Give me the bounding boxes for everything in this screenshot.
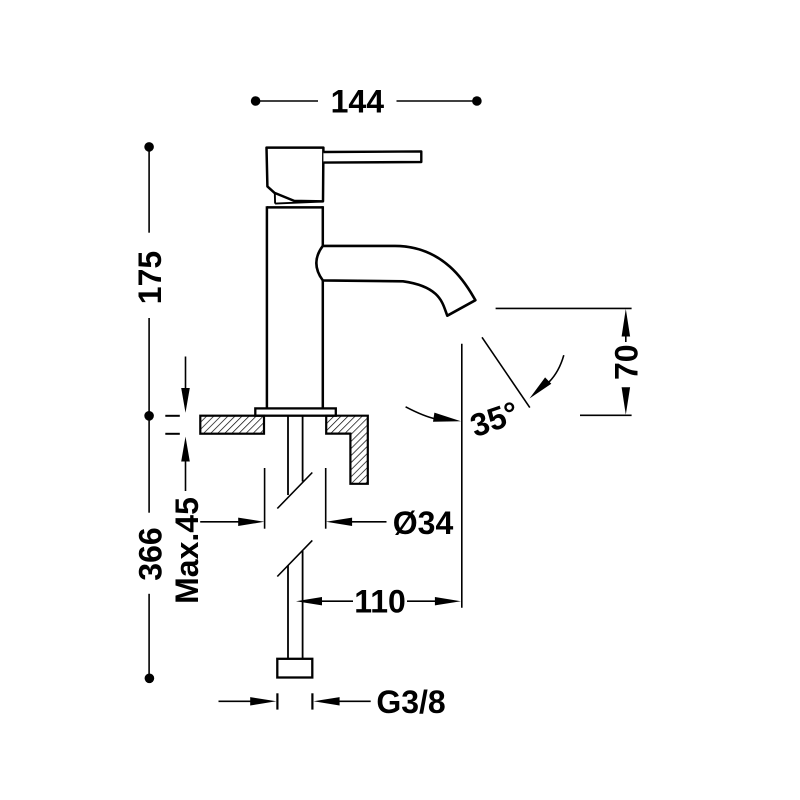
countertop left slab (hatched) (200, 416, 264, 434)
dia34 left extension line (264, 468, 266, 529)
35deg lower arrowhead (433, 413, 461, 422)
dimension 110 right arrowhead (435, 597, 461, 605)
dimension 144 right line (397, 100, 476, 102)
base plate (255, 408, 335, 415)
35deg upper curved arrow arc (549, 355, 564, 382)
svg-text:144: 144 (331, 83, 385, 119)
dimension 70 bottom line (580, 414, 632, 416)
dimension 110 left arrowhead (296, 597, 322, 605)
spout (316, 246, 475, 316)
dia34 right extension line (325, 468, 327, 529)
Max.45 lower arrowhead (181, 437, 190, 462)
Max.45 upper arrowhead (181, 388, 190, 413)
svg-text:Ø34: Ø34 (393, 505, 454, 541)
handle collar bottom edge (275, 202, 323, 204)
countertop right L-section (hatched) (326, 416, 368, 484)
dimension 70 upper stub (625, 330, 627, 342)
dia34 left arrow line (200, 521, 242, 523)
Max.45 bottom tick (165, 433, 180, 435)
supply shaft lower left line (287, 566, 289, 659)
dimension 70 top line (496, 307, 632, 309)
connection nut (277, 659, 312, 678)
dimension 144 left dot (251, 96, 261, 106)
G3/8 right tick (311, 693, 313, 709)
handle lever arm (323, 151, 421, 162)
svg-text:G3/8: G3/8 (376, 684, 445, 720)
35deg reference diagonal (482, 337, 530, 407)
dimension 366 line lower (148, 594, 150, 675)
Max.45 top tick (165, 415, 180, 417)
dimension 110 extension line (461, 344, 463, 608)
dimension 366 bottom dot (145, 674, 155, 684)
dia34 right arrow line (348, 521, 387, 523)
dia34 left arrowhead (238, 518, 264, 526)
G3/8 left arrowhead (250, 697, 276, 705)
supply shaft upper left line (287, 416, 289, 495)
dimension 70 lower arrowhead (622, 387, 631, 415)
dimension 366 line upper (148, 417, 150, 513)
svg-text:70: 70 (608, 344, 644, 380)
svg-text:Max.45: Max.45 (169, 497, 205, 604)
G3/8 right arrow line (336, 700, 371, 702)
Max.45 upper arrow line (185, 357, 187, 393)
dimension 144 left line (258, 100, 318, 102)
faucet body right edge lower (322, 280, 325, 408)
handle collar left edge (274, 193, 276, 204)
dimension 110 left line (318, 600, 353, 602)
dimension 70 upper arrowhead (622, 309, 631, 337)
supply shaft upper right line (302, 416, 304, 482)
35deg upper arrowhead (530, 377, 552, 398)
dimension 175 line upper (148, 148, 150, 233)
pipe break upper diagonal (277, 473, 312, 509)
dimension 110 right line (407, 600, 438, 602)
dimension 175 top dot (144, 142, 154, 152)
supply shaft lower right line (302, 551, 304, 659)
G3/8 left arrow line (219, 700, 255, 702)
dimension 144 right dot (472, 96, 482, 106)
faucet handle block (267, 148, 324, 202)
35deg lower curved arrow arc (406, 407, 437, 420)
svg-text:366: 366 (132, 527, 168, 580)
faucet body top edge (267, 206, 323, 209)
faucet body right edge upper (322, 206, 325, 246)
G3/8 left tick (276, 693, 278, 709)
pipe break lower diagonal (277, 540, 312, 576)
svg-text:175: 175 (132, 251, 168, 304)
shared dot 175/366 (144, 411, 154, 421)
dimension 175 line lower (148, 318, 150, 414)
G3/8 right arrowhead (314, 697, 340, 705)
dia34 right arrowhead (326, 518, 352, 526)
faucet body left edge (266, 206, 269, 408)
svg-text:110: 110 (354, 584, 406, 620)
Max.45 lower arrow line (185, 457, 187, 491)
